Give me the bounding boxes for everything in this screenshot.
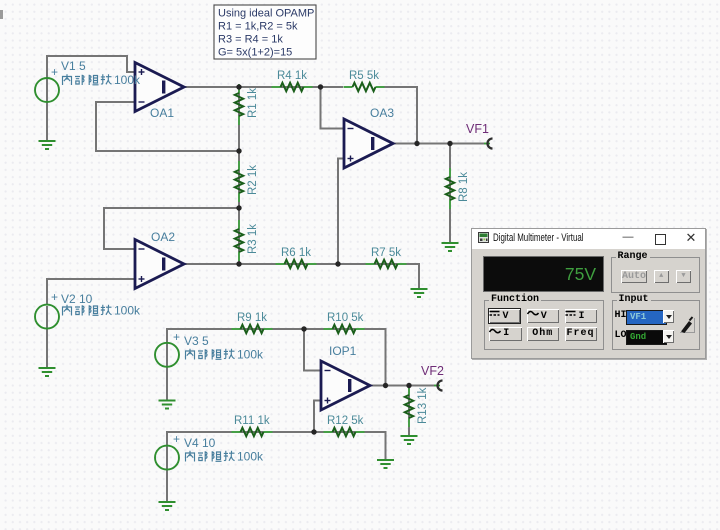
svg-text:V3 5: V3 5 bbox=[184, 334, 209, 348]
range up button bbox=[654, 270, 669, 283]
wire IOP1 - input bbox=[304, 329, 321, 371]
svg-text:G= 5x(1+2)=15: G= 5x(1+2)=15 bbox=[218, 47, 292, 59]
label V1 internal impedance 100k bbox=[63, 73, 142, 87]
svg-text:R7 5k: R7 5k bbox=[371, 247, 401, 259]
resistor R4 bbox=[272, 83, 313, 91]
svg-text:+: + bbox=[51, 65, 58, 79]
ground below V3 bbox=[159, 401, 176, 409]
wire V2 to OA2 + input bbox=[47, 279, 135, 306]
Auto button bbox=[621, 270, 647, 283]
svg-text:V2 10: V2 10 bbox=[61, 292, 93, 306]
resistor R9 bbox=[232, 325, 273, 333]
svg-text:IOP1: IOP1 bbox=[329, 344, 357, 358]
svg-text:R8 1k: R8 1k bbox=[458, 172, 470, 202]
svg-text:V4 10: V4 10 bbox=[184, 436, 216, 450]
Range group box bbox=[611, 257, 700, 293]
close button bbox=[684, 229, 698, 246]
junction node B R1-R2 bbox=[236, 148, 241, 153]
svg-text:100k: 100k bbox=[114, 304, 141, 318]
wire V4 row R11 R12 bbox=[167, 432, 386, 470]
resistor R10 bbox=[324, 325, 365, 333]
svg-text:R10 5k: R10 5k bbox=[327, 312, 364, 324]
Input group box bbox=[612, 300, 701, 350]
svg-text:+: + bbox=[51, 290, 58, 304]
resistor R1 bbox=[235, 84, 243, 125]
svg-text:OA2: OA2 bbox=[151, 230, 175, 244]
ground below V4 bbox=[159, 502, 176, 510]
svg-text:R2 1k: R2 1k bbox=[247, 165, 259, 195]
ground below R13 bbox=[401, 436, 418, 444]
ground below V1 bbox=[39, 141, 56, 149]
wire IOP1 output bbox=[370, 385, 437, 387]
ground below R7 bbox=[411, 289, 428, 297]
Freq button bbox=[565, 327, 597, 341]
AC I button bbox=[489, 327, 522, 341]
svg-text:100k: 100k bbox=[237, 450, 264, 464]
range down button bbox=[676, 270, 691, 283]
maximize button bbox=[653, 229, 667, 246]
junction R13 top bbox=[406, 383, 411, 388]
minimize button bbox=[621, 229, 635, 246]
probe pen icon bbox=[678, 312, 697, 334]
wire V2 ground stem bbox=[46, 306, 48, 368]
LO label bbox=[615, 330, 627, 341]
junction R8 top bbox=[447, 141, 452, 146]
junction node C R2-R3 bbox=[236, 205, 241, 210]
HI dropdown VF1 bbox=[626, 310, 673, 323]
resistor R8 bbox=[446, 168, 454, 209]
ground below R8 bbox=[442, 243, 459, 251]
junction node D OA2 output bbox=[236, 261, 241, 266]
label V2 internal impedance 100k bbox=[63, 304, 142, 318]
edge artifact bbox=[0, 10, 3, 19]
op-amp IOP1 bbox=[321, 361, 370, 410]
wire IOP1 + input bbox=[314, 401, 321, 433]
LO dropdown Gnd bbox=[626, 330, 673, 343]
DC V button (selected) bbox=[489, 309, 520, 323]
wire OA3 - input from node F bbox=[321, 87, 345, 129]
voltage source V2 bbox=[35, 305, 59, 329]
junction IOP1 output bbox=[383, 383, 388, 388]
svg-text:+: + bbox=[173, 330, 180, 344]
title bar bbox=[472, 229, 705, 249]
svg-text:R4 1k: R4 1k bbox=[277, 70, 307, 82]
voltage source V3 bbox=[155, 343, 179, 367]
junction node A OA1 output bbox=[236, 84, 241, 89]
junction R9-R10 bbox=[301, 326, 306, 331]
probe VF1 bbox=[484, 139, 493, 149]
op-amp OA2 bbox=[135, 240, 184, 289]
voltage source V1 bbox=[35, 78, 59, 102]
wire V3 ground stem bbox=[166, 344, 168, 401]
wire OA1 feedback to node B bbox=[96, 102, 239, 151]
wire V4 ground stem bbox=[166, 446, 168, 502]
label V3 internal impedance 100k bbox=[186, 348, 265, 362]
svg-text:Using ideal OPAMP: Using ideal OPAMP bbox=[218, 8, 314, 20]
svg-text:R5 5k: R5 5k bbox=[349, 70, 379, 82]
svg-text:100k: 100k bbox=[237, 348, 264, 362]
wire V1 to OA1 + input bbox=[47, 56, 135, 141]
wire OA3 + input from R6 R7 node bbox=[338, 159, 344, 265]
svg-text:100k: 100k bbox=[114, 73, 141, 87]
svg-text:R9 1k: R9 1k bbox=[237, 312, 267, 324]
resistor R11 bbox=[232, 428, 273, 436]
wire OA2 feedback to node C bbox=[104, 208, 239, 249]
svg-text:R1 = 1k,R2 = 5k: R1 = 1k,R2 = 5k bbox=[218, 21, 298, 33]
wire R1 R2 R3 chain bbox=[238, 87, 240, 264]
voltage source V4 bbox=[155, 446, 179, 470]
op-amp OA1 bbox=[135, 63, 184, 112]
label V4 internal impedance 100k bbox=[186, 450, 265, 464]
resistor R2 bbox=[235, 161, 243, 202]
op-amp OA3 bbox=[344, 119, 393, 168]
svg-text:VF1: VF1 bbox=[466, 122, 489, 136]
svg-text:R3 1k: R3 1k bbox=[247, 224, 259, 254]
svg-text:VF2: VF2 bbox=[421, 364, 444, 378]
wire R8 branch bbox=[449, 144, 451, 244]
junction node F R4-R5 bbox=[318, 84, 323, 89]
svg-text:OA1: OA1 bbox=[150, 106, 174, 120]
ground below R12 bbox=[377, 460, 394, 468]
junction R6-R7 bbox=[335, 261, 340, 266]
resistor R7 bbox=[366, 260, 407, 268]
Ohm button bbox=[527, 327, 560, 341]
svg-text:R1 1k: R1 1k bbox=[247, 88, 259, 118]
svg-text:R3 = R4 = 1k: R3 = R4 = 1k bbox=[218, 34, 283, 46]
probe VF2 bbox=[434, 381, 443, 391]
LCD display bbox=[483, 256, 604, 292]
HI label bbox=[615, 310, 627, 321]
svg-text:R11 1k: R11 1k bbox=[234, 415, 270, 427]
svg-text:OA3: OA3 bbox=[370, 106, 394, 120]
resistor R6 bbox=[276, 260, 317, 268]
resistor R5 bbox=[344, 83, 385, 91]
title bar icon bbox=[478, 232, 490, 244]
svg-text:R13 1k: R13 1k bbox=[417, 387, 429, 424]
wire OA1 output row to R4 R5 and OA3 bbox=[184, 87, 487, 144]
svg-text:+: + bbox=[173, 432, 180, 446]
resistor R13 bbox=[405, 386, 413, 427]
wire V3 row to R9 R10 and IOP1 bbox=[167, 329, 386, 386]
resistor R3 bbox=[235, 220, 243, 261]
AC V button bbox=[527, 309, 560, 323]
annotation text box bbox=[214, 5, 316, 59]
multimeter window bbox=[471, 228, 706, 359]
resistor R12 bbox=[324, 428, 365, 436]
svg-text:V1 5: V1 5 bbox=[61, 59, 86, 73]
wire R13 branch bbox=[408, 386, 410, 437]
DC I button bbox=[565, 309, 597, 323]
junction OA3 output bbox=[414, 141, 419, 146]
junction R11-R12 bbox=[311, 429, 316, 434]
ground below V2 bbox=[39, 368, 56, 376]
svg-text:R12 5k: R12 5k bbox=[327, 415, 364, 427]
window title bbox=[493, 232, 584, 244]
svg-text:R6 1k: R6 1k bbox=[281, 247, 311, 259]
Function group box bbox=[484, 300, 604, 350]
wire OA2 output row R6 R7 bbox=[184, 264, 419, 289]
